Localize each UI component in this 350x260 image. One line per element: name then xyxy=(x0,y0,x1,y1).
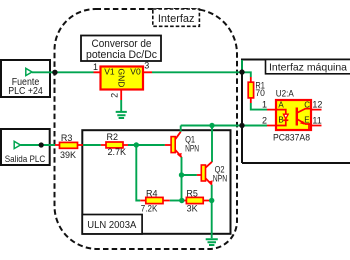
svg-text:1: 1 xyxy=(93,62,98,72)
svg-text:Interfaz: Interfaz xyxy=(158,13,195,25)
svg-text:NPN: NPN xyxy=(213,174,228,184)
svg-text:3K: 3K xyxy=(187,203,198,213)
svg-text:E: E xyxy=(304,116,309,125)
svg-text:3: 3 xyxy=(144,61,149,71)
svg-text:A: A xyxy=(278,101,284,110)
svg-text:potencia Dc/Dc: potencia Dc/Dc xyxy=(86,49,157,61)
svg-text:R4: R4 xyxy=(146,189,158,199)
svg-text:11: 11 xyxy=(312,115,321,125)
svg-text:70: 70 xyxy=(255,88,265,98)
svg-text:2.7K: 2.7K xyxy=(108,147,127,157)
svg-text:ULN 2003A: ULN 2003A xyxy=(87,220,136,231)
svg-text:1: 1 xyxy=(262,100,267,110)
svg-text:PLC +24: PLC +24 xyxy=(8,86,43,97)
svg-text:Salida PLC: Salida PLC xyxy=(5,154,46,165)
svg-text:B: B xyxy=(278,116,283,125)
svg-text:7.2K: 7.2K xyxy=(141,203,158,213)
svg-text:GND: GND xyxy=(117,69,127,88)
svg-text:V0: V0 xyxy=(130,67,141,77)
svg-text:2: 2 xyxy=(109,93,119,98)
svg-text:R5: R5 xyxy=(186,188,198,198)
svg-text:2: 2 xyxy=(262,115,267,125)
svg-text:R2: R2 xyxy=(107,132,119,142)
svg-text:Interfaz máquina: Interfaz máquina xyxy=(269,62,347,74)
svg-text:PC837A8: PC837A8 xyxy=(273,132,310,143)
svg-text:C: C xyxy=(304,101,310,110)
svg-text:12: 12 xyxy=(312,100,322,110)
svg-text:39K: 39K xyxy=(60,150,76,160)
svg-text:R3: R3 xyxy=(61,133,73,143)
svg-text:NPN: NPN xyxy=(185,144,199,154)
svg-text:V1: V1 xyxy=(104,67,115,77)
svg-text:U2:A: U2:A xyxy=(276,89,294,99)
